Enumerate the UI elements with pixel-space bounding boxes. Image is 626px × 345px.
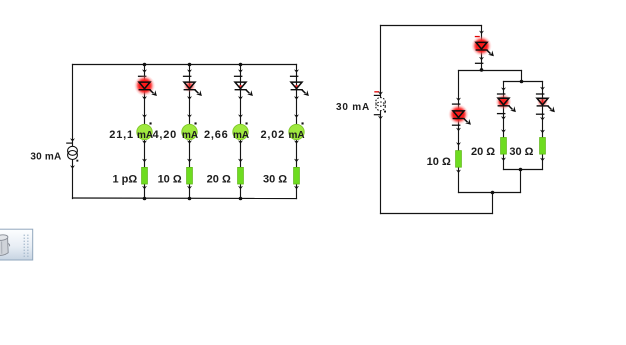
ammeter M2 (182, 114, 197, 143)
current source I1 (30 mA) (66, 138, 78, 169)
wire: left side with current source (72, 65, 74, 199)
junction top b3 (239, 63, 243, 67)
svg-text:30 Ω: 30 Ω (263, 174, 287, 186)
LED D1 (branch 1, lit bright) (134, 69, 157, 99)
wire: top bus (73, 64, 297, 66)
svg-text:30 mA: 30 mA (336, 102, 370, 113)
svg-text:20 Ω: 20 Ω (471, 146, 495, 158)
svg-text:21,1: 21,1 (109, 129, 134, 141)
wire: top LED drop (481, 26, 483, 71)
resistor R7 (30 Ω) (540, 130, 546, 162)
wire: branch 2 vertical (189, 65, 191, 199)
LED D4 (branch 4, off) (290, 69, 309, 99)
wire: bus 1 (459, 70, 522, 72)
ammeter M4 (289, 114, 304, 143)
wire: bottom bus (381, 213, 493, 215)
wire: top bus (381, 25, 482, 27)
svg-text:10 Ω: 10 Ω (158, 174, 182, 186)
svg-text:mA: mA (137, 130, 153, 141)
svg-text:4,20: 4,20 (152, 129, 177, 141)
resistor R6 (20 Ω) (501, 129, 507, 161)
wire: bus 2 (504, 81, 543, 83)
drag handle dots (24, 235, 29, 257)
svg-text:20 Ω: 20 Ω (207, 174, 231, 186)
junction bottom b3 (239, 197, 243, 201)
wire: bottom bus (73, 197, 297, 200)
resistor R3 (20 Ω) (238, 159, 244, 190)
toolbar chip (bottom-left delete tool) (0, 229, 33, 260)
svg-text:1 pΩ: 1 pΩ (112, 174, 137, 186)
LED D3 (branch 3, off) (234, 69, 253, 99)
LED D5 (top, lit bright) (471, 31, 494, 64)
wire: bus 4 (outer bottom) (459, 192, 521, 194)
wire: branch 3 vertical (240, 65, 242, 199)
svg-text:2,02: 2,02 (260, 129, 285, 141)
svg-text:2,66: 2,66 (204, 129, 229, 141)
wire: bus 3 (inner bottom) (504, 169, 543, 171)
wire: branch 10Ω vertical (458, 71, 460, 193)
ammeter M3 (233, 114, 248, 143)
wire: left side with current source (380, 26, 382, 214)
junction top b2 (188, 63, 192, 67)
resistor R1 (1 pΩ) (142, 159, 148, 190)
svg-text:mA: mA (288, 130, 304, 141)
current source I2 (30 mA, selected) (374, 91, 386, 119)
resistor R5 (10 Ω) (456, 142, 462, 173)
wire: drop bus4 to bottom (492, 193, 494, 214)
junction at bus3 (519, 168, 523, 172)
ammeter M1 (137, 114, 152, 143)
wire: drop bus3 to bus4 (520, 170, 522, 193)
junction at top LED / bus1 (480, 68, 484, 72)
wire: drop bus1 to bus2 (521, 71, 523, 82)
junction at bus2 (520, 80, 524, 84)
LED D2 (branch 2, dim) (183, 69, 202, 99)
junction bottom b2 (188, 197, 192, 201)
junction top b1 (143, 63, 147, 67)
wire: branch 20Ω vertical (503, 82, 505, 170)
LED D8 (30Ω branch, dim) (536, 87, 555, 121)
wire: branch 1 vertical (144, 65, 146, 199)
trash can icon (clipped at left edge) (0, 234, 10, 255)
wire: branch 30Ω vertical (542, 82, 544, 170)
svg-text:30 mA: 30 mA (30, 152, 61, 163)
LED D7 (20Ω branch, medium) (496, 87, 516, 119)
junction bottom b1 (143, 197, 147, 201)
svg-text:10 Ω: 10 Ω (427, 156, 451, 168)
junction at bus4 (491, 191, 495, 195)
resistor R4 (30 Ω) (294, 159, 300, 190)
resistor R2 (10 Ω) (187, 159, 193, 190)
svg-text:mA: mA (182, 130, 198, 141)
svg-text:30 Ω: 30 Ω (509, 146, 533, 158)
LED D6 (10Ω branch, lit bright) (448, 98, 471, 132)
wire: branch 4 vertical (right edge) (296, 65, 298, 199)
svg-text:mA: mA (233, 130, 249, 141)
